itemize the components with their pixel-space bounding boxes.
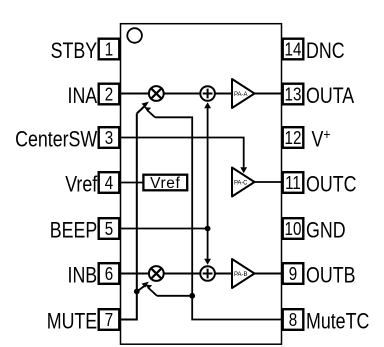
wire BEEP (pin 5) horizontal <box>121 228 208 230</box>
svg-text:5: 5 <box>105 219 113 240</box>
label OUTB <box>306 264 355 288</box>
Vref block <box>143 175 187 192</box>
svg-text:MUTE: MUTE <box>47 310 97 334</box>
junction MuteTC branch node <box>189 293 195 299</box>
svg-text:Vref: Vref <box>150 175 180 192</box>
wire MuteTC arrow at multiplier A <box>144 107 155 117</box>
wire MUTE arrow into multiplier A <box>137 102 149 114</box>
svg-text:13: 13 <box>285 84 302 105</box>
wire MuteTC arrow at multiplier B <box>145 285 192 296</box>
label CenterSW <box>15 128 97 152</box>
op-amp PA-A <box>232 79 255 108</box>
svg-text:STBY: STBY <box>51 39 98 63</box>
svg-text:OUTB: OUTB <box>306 264 355 288</box>
summing node channel A <box>200 86 215 101</box>
svg-text:11: 11 <box>285 173 301 194</box>
label OUTA <box>306 84 355 108</box>
pin 14 box <box>283 39 304 60</box>
multiplier (gain cell) channel A <box>149 86 164 101</box>
svg-text:PA-B: PA-B <box>234 272 248 278</box>
wire BEEP vertical to both summers <box>204 102 211 265</box>
svg-text:INB: INB <box>68 264 98 288</box>
wire PA-C output to pin 11 <box>255 181 282 183</box>
wire Vref (pin 4) to Vref block <box>121 182 145 184</box>
svg-text:14: 14 <box>285 39 302 60</box>
wire MUTE (pin 7) riser <box>121 114 137 320</box>
svg-text:4: 4 <box>105 173 113 194</box>
svg-text:CenterSW: CenterSW <box>15 128 97 152</box>
svg-text:8: 8 <box>289 310 297 331</box>
label V+ <box>312 126 331 152</box>
wire MuteTC (pin 8) riser <box>155 117 282 319</box>
pin 6 box <box>99 263 120 284</box>
svg-text:9: 9 <box>289 264 297 285</box>
wire MUTE arrow into multiplier B <box>137 282 149 292</box>
label STBY <box>51 39 98 63</box>
label MUTE <box>47 310 97 334</box>
svg-text:INA: INA <box>68 84 98 108</box>
summing node channel B <box>200 266 215 281</box>
label INA <box>68 84 98 108</box>
svg-text:6: 6 <box>105 264 113 285</box>
pin 12 box <box>283 127 304 148</box>
svg-text:PA-A: PA-A <box>234 92 248 98</box>
svg-text:BEEP: BEEP <box>50 219 97 243</box>
label MuteTC <box>306 310 369 334</box>
svg-text:3: 3 <box>105 128 113 149</box>
pin 3 box <box>99 127 120 148</box>
op-amp PA-C <box>232 168 255 197</box>
svg-text:Vref: Vref <box>65 173 97 197</box>
junction BEEP node <box>205 226 211 232</box>
pin 9 box <box>283 263 304 284</box>
label Vref <box>65 173 97 197</box>
pin 10 box <box>283 218 304 239</box>
pin 13 box <box>283 84 304 105</box>
pin 11 box <box>283 172 304 193</box>
wire CenterSW (pin 3) to PA-C <box>121 138 248 174</box>
svg-text:1: 1 <box>105 39 113 60</box>
label OUTC <box>306 173 356 197</box>
pin 4 box <box>99 172 120 193</box>
svg-text:12: 12 <box>285 128 302 149</box>
wire INB signal path (pin 6 row) <box>121 273 282 275</box>
svg-text:DNC: DNC <box>306 39 345 63</box>
svg-text:OUTC: OUTC <box>306 173 356 197</box>
svg-text:MuteTC: MuteTC <box>306 310 369 334</box>
label DNC <box>306 39 345 63</box>
svg-text:OUTA: OUTA <box>306 84 355 108</box>
label INB <box>68 264 98 288</box>
label GND <box>306 219 346 243</box>
pin 8 box <box>283 309 304 330</box>
pin 1 box <box>99 39 120 60</box>
pin 7 box <box>99 309 120 330</box>
IC package outline <box>121 24 282 345</box>
pin 5 box <box>99 218 120 239</box>
svg-text:GND: GND <box>306 219 346 243</box>
svg-text:10: 10 <box>285 219 302 240</box>
svg-text:2: 2 <box>105 84 113 105</box>
junction MUTE branch node <box>134 289 140 295</box>
label BEEP <box>50 219 97 243</box>
svg-text:PA-C: PA-C <box>234 180 248 186</box>
wire INA signal path (pin 2 row) <box>121 93 282 95</box>
op-amp PA-B <box>232 259 255 288</box>
pin 2 box <box>99 84 120 105</box>
pin 1 indicator circle <box>127 28 142 43</box>
svg-text:7: 7 <box>105 310 113 331</box>
multiplier (gain cell) channel B <box>149 266 164 281</box>
